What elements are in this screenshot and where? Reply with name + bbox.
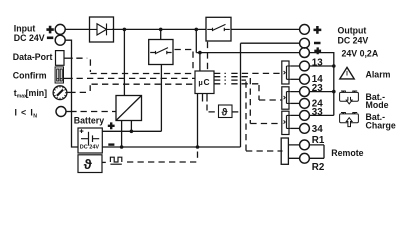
terminal circle aux + (300, 48, 310, 58)
wire remote bracket (323, 145, 325, 158)
node at x200 (195, 28, 199, 32)
wire battery - line (102, 146, 240, 148)
wire 24 (290, 102, 300, 104)
label Alarm (366, 69, 391, 79)
wire rotary stub (67, 91, 76, 93)
label Input DC 24V (14, 23, 45, 43)
label 14 (312, 74, 323, 85)
wire 34 (290, 127, 300, 129)
battery - sign (108, 143, 114, 145)
terminal circle 34 (300, 123, 310, 133)
wire aux output 24V 0,2A (196, 52, 300, 54)
svg-text:µ: µ (198, 78, 202, 87)
wire rail to switch S1 top (160, 29, 162, 39)
rotary selector icon (53, 86, 67, 100)
switch S2 contact (207, 24, 230, 31)
dashed wire switch S2 control (207, 42, 209, 70)
svg-text:<: < (21, 108, 26, 118)
svg-text:23: 23 (312, 83, 323, 94)
LED circle I<In (56, 107, 66, 117)
terminal circle 14 (300, 74, 310, 84)
svg-text:ϑ: ϑ (84, 156, 93, 172)
svg-text:C: C (204, 77, 210, 87)
terminal circle input - (55, 35, 65, 45)
label Bat.-Charge (366, 112, 396, 130)
svg-text:N: N (33, 113, 37, 119)
svg-text:R1: R1 (312, 135, 325, 146)
terminal circle 33 (300, 111, 310, 121)
terminal circle input + (55, 24, 65, 34)
PWM signal symbol (110, 157, 121, 164)
uC bottom pin to ground (197, 94, 199, 148)
terminal circle R1 (300, 140, 310, 150)
wire rail down to uC (sense) (196, 29, 200, 71)
svg-text:Battery: Battery (74, 115, 104, 125)
label Remote (331, 148, 363, 158)
svg-text:[min]: [min] (26, 88, 48, 98)
wire aux to terminal bus (309, 53, 334, 116)
svg-text:Alarm: Alarm (366, 69, 391, 79)
battery box (78, 128, 102, 153)
battery charge relay icon (340, 113, 359, 127)
node bus 13 (332, 64, 336, 68)
dashed wire uC to relay 33/34 (214, 77, 283, 124)
svg-text:DC 24V: DC 24V (80, 144, 100, 150)
svg-text:I: I (15, 108, 17, 118)
relay contact block 23/24 (282, 87, 291, 109)
uC box (195, 71, 214, 94)
wire Data-Port stub (64, 57, 73, 59)
label 33 (312, 107, 323, 118)
battery mode relay icon (340, 91, 359, 104)
relay contact block 13/14 (282, 61, 291, 84)
alarm warning triangle (340, 67, 354, 79)
switch S2 box (206, 17, 231, 41)
input + polarity sign (46, 26, 53, 34)
svg-text:DC 24V: DC 24V (14, 33, 45, 43)
svg-text:Output: Output (338, 26, 367, 36)
svg-text:DC 24V: DC 24V (338, 35, 369, 45)
label Battery (74, 115, 104, 125)
svg-text:R2: R2 (312, 162, 325, 173)
node bus 23 (332, 90, 336, 94)
uC bottom pin stub (202, 94, 204, 102)
label output - (314, 42, 321, 45)
wire 33 (290, 114, 334, 116)
remote contact block R1/R2 (281, 138, 288, 164)
svg-text:13: 13 (312, 57, 323, 68)
dashed wire uC to relay 13/14 (214, 72, 283, 74)
label t max [min] (14, 88, 47, 100)
svg-text:33: 33 (312, 107, 323, 118)
uC bottom pin stub2 (206, 94, 208, 102)
wire diode to switch S2 (top rail) (112, 28, 206, 30)
svg-text:Charge: Charge (366, 121, 396, 131)
label DC 24V inside battery (80, 144, 100, 150)
svg-text:Confirm: Confirm (13, 70, 47, 80)
wire 13 (290, 65, 334, 67)
terminal circle 24 (300, 99, 310, 109)
svg-text:24V 0,2A: 24V 0,2A (342, 48, 379, 58)
theta2 box internal sensor (219, 105, 233, 118)
svg-text:Remote: Remote (331, 148, 363, 158)
dashed wire t selector to uC (80, 84, 195, 92)
wire DC/DC bottom to battery + (130, 121, 132, 132)
dashed wire uC to relay 23/24 (214, 84, 283, 100)
svg-text:Input: Input (14, 23, 36, 33)
label Confirm (13, 70, 47, 80)
wire LED stub (66, 111, 77, 113)
temperature sensor box (battery) (78, 155, 102, 173)
battery + sign (108, 122, 115, 129)
terminal circle 13 (300, 61, 310, 71)
node DC/DC plus on battery + wire (130, 130, 134, 134)
wire Confirm stub (64, 77, 73, 79)
DC/DC converter box (116, 96, 142, 121)
dashed wire Data-Port to uC (76, 58, 195, 73)
wire 14 (290, 78, 300, 80)
wire output - from rail (241, 43, 300, 147)
wire switch S2 to output + (231, 28, 300, 30)
svg-text:34: 34 (312, 124, 323, 135)
node at x124 (123, 28, 127, 32)
node aux tap (198, 51, 202, 55)
wire rail to DC/DC converter top (123, 29, 125, 95)
dashed wire Confirm to uC (77, 77, 196, 79)
label Bat.-Mode (366, 92, 389, 110)
switch S1 contact (150, 48, 171, 55)
label Output DC 24V (338, 26, 369, 46)
label R1 (312, 135, 325, 146)
wire 23 (290, 91, 334, 93)
label output + (314, 26, 322, 34)
battery cell symbol (80, 129, 100, 145)
terminal circle 23 (300, 87, 310, 97)
wire switch S1 to battery + (160, 65, 162, 132)
wire R1 (288, 144, 324, 146)
dashed wire I<In to DC/DC (81, 111, 116, 113)
label I < In (15, 108, 38, 120)
label aux + (314, 47, 321, 54)
relay contact block 33/34 (282, 111, 291, 134)
svg-text:ϑ: ϑ (221, 106, 228, 118)
svg-text:Data-Port: Data-Port (13, 52, 53, 62)
label Data-Port (13, 52, 53, 62)
dashed wire uC to relay R1/R2 (214, 80, 283, 151)
dashed wire switch S1 control (175, 50, 194, 71)
input - polarity sign (47, 36, 53, 39)
dashed wire uC to theta2 (207, 105, 219, 112)
theta glyph battery sensor (84, 156, 93, 172)
diode V1 symbol (90, 24, 114, 36)
wire DC/DC bottom to - rail (121, 121, 123, 148)
wire theta stub (102, 161, 106, 163)
wire input - down rail (65, 40, 78, 147)
terminal circle output - (300, 38, 310, 48)
wire R2 (288, 157, 324, 159)
label R2 (312, 162, 325, 173)
label 13 (312, 57, 323, 68)
label 34 (312, 124, 323, 135)
switch S1 box (149, 40, 173, 65)
dashed wire PWM to uC (127, 161, 199, 163)
dashed stub below ground node (197, 152, 199, 160)
terminal circle R2 (300, 153, 310, 163)
wire battery + line (102, 130, 161, 132)
Confirm button icon (55, 67, 63, 83)
label 23 (312, 83, 323, 94)
terminal circle output + (300, 25, 310, 35)
svg-text:Mode: Mode (366, 100, 389, 110)
wire input + to diode (65, 28, 89, 30)
label 24V 0,2A (342, 48, 379, 58)
Data-Port connector icon (56, 51, 65, 66)
node DC/DC minus on - rail (120, 145, 124, 149)
dashed control wires (76, 42, 282, 162)
label 24 (312, 98, 323, 109)
node at x160 (159, 28, 163, 32)
dashed wire theta2 to rail (232, 111, 239, 113)
node uC ground on - line (196, 145, 200, 149)
diode V1 box (90, 17, 114, 42)
